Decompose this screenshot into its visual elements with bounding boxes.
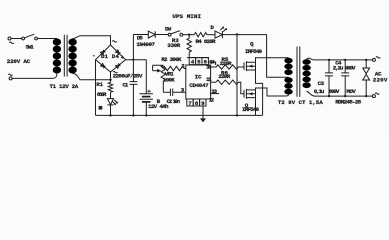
diode D2 (bridge TR) (116, 50, 120, 54)
svg-text:+: + (121, 54, 125, 61)
wire (238, 82, 244, 94)
svg-text:UPS MINI: UPS MINI (172, 13, 201, 20)
wire (183, 34, 195, 36)
wire battery feed (145, 60, 147, 94)
svg-text:330R: 330R (167, 42, 180, 49)
wire (145, 102, 147, 116)
node junction (109, 79, 111, 81)
node junction (145, 114, 147, 116)
pin box 4 (189, 58, 195, 65)
pin box 6 (202, 58, 208, 65)
wire VCC to center tap (267, 34, 289, 77)
wire Q1 drain (256, 58, 289, 63)
svg-text:8: 8 (195, 100, 199, 107)
svg-text:600V: 600V (328, 88, 339, 95)
svg-text:220R: 220R (220, 60, 232, 67)
svg-text:220V AC: 220V AC (7, 58, 31, 65)
pin 14 (208, 62, 215, 65)
ground symbol (202, 115, 204, 118)
svg-text:Q: Q (250, 40, 254, 47)
node junction (328, 59, 330, 61)
wire VCC pins 4 5 6 (187, 57, 209, 59)
wire (222, 34, 266, 36)
potentiometer VR1 wiper arrow (153, 70, 158, 72)
svg-text:1N4007: 1N4007 (136, 41, 155, 48)
svg-text:-: - (92, 52, 96, 59)
node junction (132, 59, 134, 61)
svg-text:MOV: MOV (346, 88, 356, 95)
wire (38, 38, 57, 40)
wire Q2 source (255, 98, 257, 116)
svg-text:T2 9V CT 1,5A: T2 9V CT 1,5A (278, 99, 323, 106)
diode D1 (bridge TL) (101, 51, 105, 55)
svg-text:220V: 220V (373, 76, 388, 83)
ground rail (96, 114, 263, 116)
pin box 5 (196, 58, 202, 65)
wire D5/C1 vertical (132, 34, 134, 81)
pin 13 stub (211, 93, 219, 95)
wire (307, 58, 373, 60)
varistor MOV (365, 60, 367, 96)
node AC out N (terminal) (372, 95, 375, 98)
svg-text:IC: IC (195, 73, 202, 80)
svg-text:2200uF/25V: 2200uF/25V (113, 72, 143, 79)
wire wiper (153, 65, 163, 71)
wire (238, 66, 244, 68)
wire (11, 38, 22, 40)
wire bottom vertex to node (110, 72, 112, 82)
svg-text:SW1: SW1 (26, 44, 35, 51)
battery B (140, 94, 153, 100)
node AC input N (terminal) (8, 74, 12, 76)
wire (110, 105, 112, 115)
wire Q1 source (256, 70, 263, 115)
node junction (344, 95, 346, 97)
wire (132, 84, 134, 115)
potentiometer VR1 (161, 65, 165, 81)
svg-text:R1: R1 (96, 81, 103, 88)
resistor R4 (194, 33, 207, 37)
wire (73, 74, 111, 80)
svg-text:IRF540: IRF540 (242, 106, 259, 113)
node junction (365, 95, 367, 97)
node AC input L (terminal) (8, 37, 11, 40)
wire pin 11 (211, 81, 216, 83)
svg-text:680R: 680R (97, 91, 107, 98)
transistor Q2 IRF540 (243, 90, 245, 98)
bridge rectifier D1-D4 diamond (96, 45, 126, 72)
node AC out L (terminal) (372, 58, 375, 61)
resistor R2 (163, 66, 184, 70)
svg-text:220R: 220R (218, 73, 230, 80)
LED D6 (107, 99, 113, 105)
node junction (188, 34, 190, 36)
resistor R5 (216, 65, 238, 69)
wire LED cathode to ground (236, 34, 238, 115)
resistor R3 (188, 35, 190, 39)
diode D4 (bridge BR) (116, 65, 120, 69)
node junction (132, 114, 134, 116)
svg-text:T1 12V 2A: T1 12V 2A (50, 83, 79, 90)
node junction (109, 114, 111, 116)
wire (207, 34, 215, 36)
switch SW2 (168, 33, 171, 36)
capacitor C4 (344, 60, 346, 96)
node junction (236, 33, 238, 35)
svg-text:SW: SW (165, 25, 172, 32)
svg-text:7: 7 (188, 100, 192, 107)
svg-text:CD4047: CD4047 (189, 82, 209, 89)
capacitor C3 (328, 60, 330, 96)
wire (73, 36, 111, 45)
transformer T2 secondary (302, 59, 310, 88)
svg-text:2,2u: 2,2u (333, 65, 344, 72)
wire minus to ground rail (95, 60, 97, 116)
node junction (328, 95, 330, 97)
svg-text:C3: C3 (318, 80, 325, 87)
wire Q2 drain (256, 88, 286, 96)
bridge ~ mark top (112, 41, 116, 43)
resistor R1 (108, 82, 112, 92)
capacitor C1 (130, 82, 138, 85)
svg-text:IRF540: IRF540 (245, 48, 262, 55)
svg-text:0,1u: 0,1u (314, 88, 325, 95)
node junction (344, 59, 346, 61)
LED D (215, 31, 222, 38)
resistor R6 (216, 80, 238, 84)
svg-text:C1: C1 (122, 82, 128, 89)
node junction (365, 59, 367, 61)
transformer T2 primary (284, 58, 292, 95)
wire (12, 74, 57, 79)
transformer T1 primary (53, 39, 61, 74)
wire pin 10 (211, 66, 216, 68)
svg-text:D6: D6 (98, 104, 103, 111)
svg-text:R4 820R: R4 820R (196, 38, 216, 45)
svg-text:D1: D1 (101, 53, 109, 60)
pin box 9 (200, 99, 206, 106)
diode D3 (bridge BL) (101, 63, 105, 67)
bridge ~ mark bottom (113, 71, 117, 73)
wire (286, 95, 289, 96)
wire (110, 92, 112, 98)
svg-text:13: 13 (211, 88, 217, 95)
svg-text:9: 9 (201, 100, 205, 107)
wire gnd pins (202, 106, 204, 115)
wire (162, 81, 164, 92)
svg-text:D4: D4 (112, 53, 120, 60)
pin box 8 (193, 99, 199, 106)
transformer T1 core (64, 35, 67, 77)
svg-text:RDN248-28: RDN248-28 (335, 99, 361, 106)
svg-text:D: D (210, 24, 214, 31)
pin box 7 (187, 99, 193, 106)
svg-text:400V: 400V (345, 65, 356, 72)
transformer T2 core (297, 47, 300, 97)
diode D5 (148, 31, 155, 38)
svg-text:100K: 100K (163, 77, 175, 84)
svg-text:12: 12 (209, 97, 215, 104)
wire (307, 91, 373, 96)
wire (133, 34, 148, 36)
svg-text:R2 390K: R2 390K (161, 56, 182, 63)
node junction (236, 114, 238, 116)
op-amp U1 IC CD4047 box (186, 65, 211, 99)
transistor Q1 IRF540 (243, 63, 245, 71)
transformer T1 secondary (68, 39, 76, 74)
capacitor C2 (163, 91, 186, 93)
wire (155, 34, 168, 36)
svg-text:C2 10n: C2 10n (167, 98, 181, 105)
wire plus node (126, 59, 147, 61)
switch SW1 (22, 34, 38, 50)
